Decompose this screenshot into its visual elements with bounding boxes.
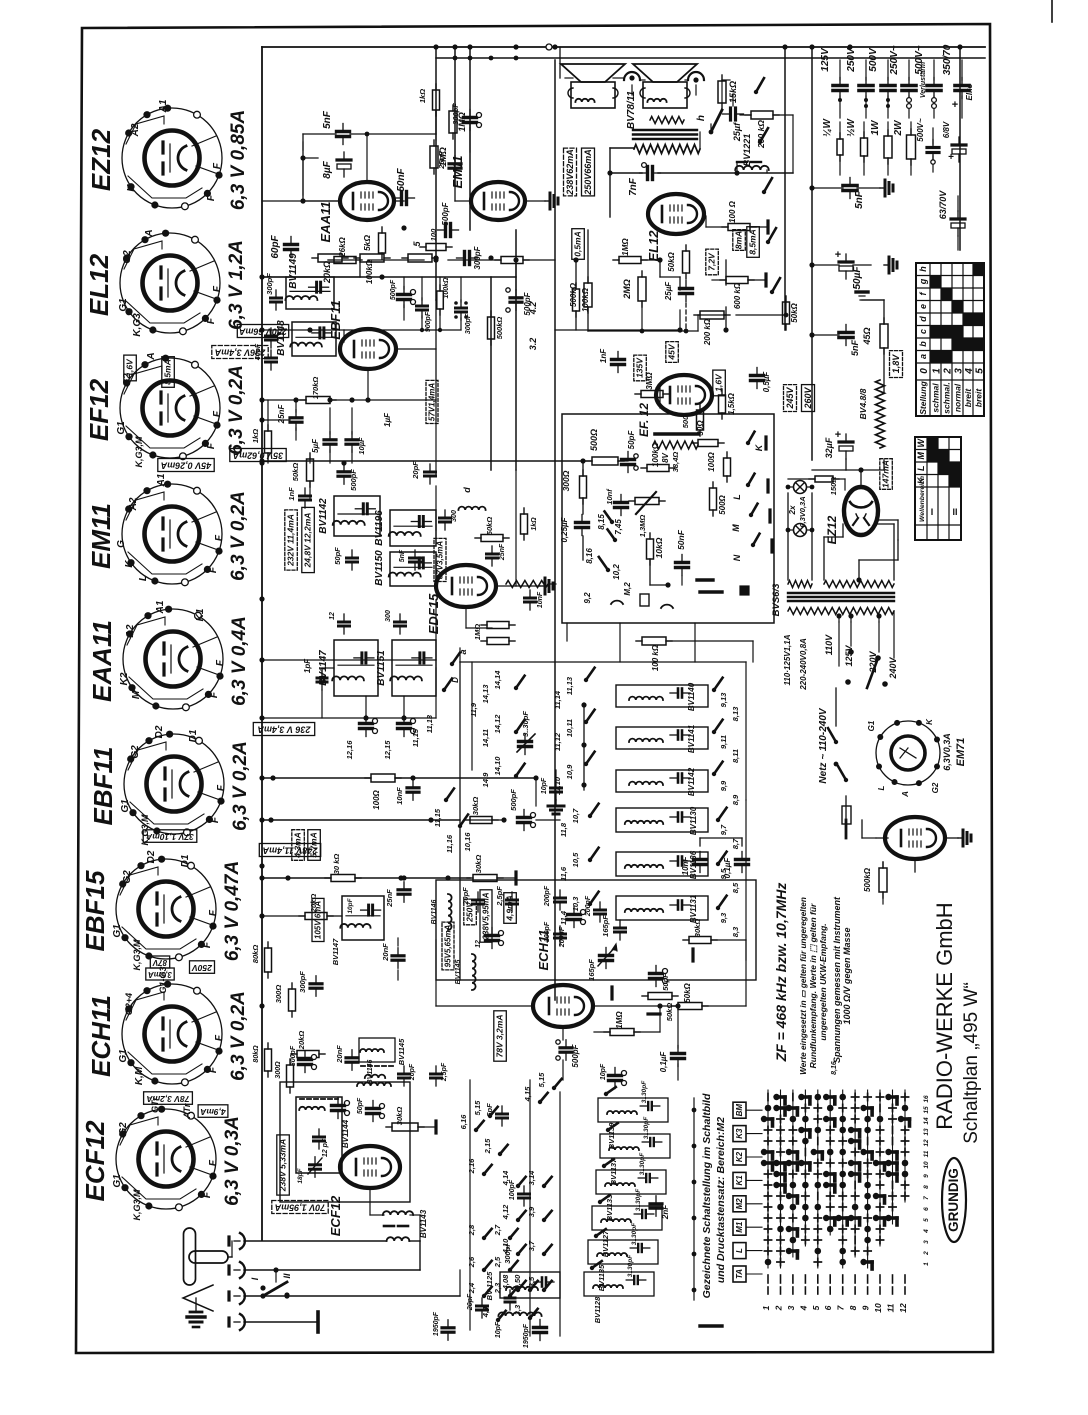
svg-text:L: L <box>735 1248 744 1253</box>
svg-text:EDF15: EDF15 <box>426 593 441 634</box>
svg-text:Spannungen gemessen mit Instru: Spannungen gemessen mit Instrument <box>832 896 842 1063</box>
FM IF filter BV1130 <box>616 808 708 832</box>
svg-text:147mA: 147mA <box>881 460 891 488</box>
svg-text:245V: 245V <box>785 386 795 409</box>
capacitor 2,5pF osc <box>431 1073 442 1076</box>
tube EM71 socket <box>876 721 940 785</box>
svg-text:BV78/11: BV78/11 <box>626 90 637 129</box>
svg-text:5nF: 5nF <box>850 340 860 357</box>
wire if lower <box>262 717 436 719</box>
svg-text:50pF: 50pF <box>357 1097 364 1114</box>
svg-text:10: 10 <box>873 1303 883 1313</box>
switch K <box>746 441 750 445</box>
trimmer 18pF osc <box>310 1163 321 1166</box>
label box 1,8V <box>890 351 903 378</box>
svg-text:1,8V: 1,8V <box>891 354 901 374</box>
node top bus junctions 2 <box>513 44 518 49</box>
svg-text:g: g <box>918 278 928 285</box>
svg-text:12,16: 12,16 <box>345 740 354 760</box>
svg-text:BV1135: BV1135 <box>597 1264 606 1291</box>
button label BM <box>733 1102 746 1118</box>
wire vertical bus x470 <box>469 47 471 230</box>
svg-text:100Ω: 100Ω <box>372 789 381 809</box>
svg-text:500kΩ: 500kΩ <box>495 317 504 340</box>
button label M1 <box>733 1219 746 1235</box>
resistor 30kΩ ech <box>689 937 711 944</box>
svg-text:BVS6/3: BVS6/3 <box>771 583 782 616</box>
svg-text:10kΩ: 10kΩ <box>654 537 664 558</box>
FM IF filter BV1136 <box>616 852 708 876</box>
svg-text:EBF15: EBF15 <box>80 870 110 951</box>
svg-text:A: A <box>144 229 155 237</box>
svg-text:8,16: 8,16 <box>831 1061 838 1075</box>
coil BV1143 <box>383 1211 413 1215</box>
svg-text:G1: G1 <box>112 1174 123 1188</box>
svg-text:7,45: 7,45 <box>614 519 623 535</box>
svg-text:9,11: 9,11 <box>719 735 728 749</box>
svg-text:236 V 3,4mA: 236 V 3,4mA <box>257 725 311 735</box>
label box 78V 3,2mA ech <box>494 1011 507 1061</box>
svg-text:G1: G1 <box>118 298 129 312</box>
svg-text:M,2: M,2 <box>623 582 632 596</box>
coil block BV1125 <box>500 1272 560 1298</box>
resistor 30kΩ c <box>473 875 497 882</box>
svg-text:1,6V: 1,6V <box>125 358 135 377</box>
svg-text:h: h <box>918 266 928 272</box>
svg-text:BV1147: BV1147 <box>331 938 340 965</box>
svg-text:35V 0,62mA: 35V 0,62mA <box>233 451 284 461</box>
svg-text:RADIO-WERKE GmbH: RADIO-WERKE GmbH <box>932 902 957 1129</box>
label box 45V 0,26mA <box>158 459 214 472</box>
svg-text:4,12: 4,12 <box>501 1204 510 1220</box>
tube EM71 (in circuit) <box>885 817 945 859</box>
svg-text:10,3: 10,3 <box>571 896 580 911</box>
capacitor 50nF <box>400 192 403 205</box>
svg-text:4,14: 4,14 <box>501 1170 510 1186</box>
svg-text:11,8: 11,8 <box>559 822 568 837</box>
trimmer 165pF ech <box>600 954 613 957</box>
legend resistor ¼W <box>837 139 843 155</box>
svg-text:8mA: 8mA <box>734 231 744 249</box>
svg-text:25nF: 25nF <box>385 889 394 908</box>
resistor 50kΩ af <box>783 302 790 324</box>
capacitor 5pF bank <box>497 1113 508 1116</box>
svg-text:1pF: 1pF <box>303 658 312 673</box>
svg-text:300Ω: 300Ω <box>274 985 283 1004</box>
box osc section <box>280 1082 410 1202</box>
svg-text:6,3 V 0,2A: 6,3 V 0,2A <box>228 491 249 581</box>
ground tone <box>697 578 713 581</box>
label box 236V 3,4mA <box>212 346 268 359</box>
svg-text:8,5: 8,5 <box>731 882 740 893</box>
svg-text:D: D <box>451 677 460 683</box>
svg-text:57V1,4mA: 57V1,4mA <box>428 383 437 421</box>
label box 95V 5,65mA <box>442 922 454 970</box>
svg-text:3: 3 <box>923 1240 930 1244</box>
svg-text:3..30pF: 3..30pF <box>641 1080 648 1103</box>
svg-text:4,9mA: 4,9mA <box>200 1107 227 1117</box>
wire tone box verticals <box>566 623 568 641</box>
wire vertical bus x491 <box>490 277 492 470</box>
resistor 5kΩ <box>379 233 386 253</box>
switch a/D <box>450 662 454 666</box>
resistor 50kΩ ech <box>678 1003 702 1010</box>
svg-text:11,12: 11,12 <box>553 732 562 751</box>
wire horizontal bus y277 <box>262 276 516 278</box>
svg-text:30Ω: 30Ω <box>696 420 705 436</box>
resistor 10kΩ <box>647 539 654 559</box>
svg-text:10pF: 10pF <box>495 1321 502 1338</box>
svg-text:ECH11: ECH11 <box>536 930 551 971</box>
capacitor 20pF fm <box>473 899 484 902</box>
svg-text:30 kΩ: 30 kΩ <box>332 854 341 875</box>
GRUNDIG logo <box>942 1158 966 1242</box>
capacitor 5nF e <box>410 557 421 560</box>
svg-text:BV1128: BV1128 <box>593 1296 602 1323</box>
svg-text:ZF = 468 kHz bzw. 10,7MHz: ZF = 468 kHz bzw. 10,7MHz <box>773 883 789 1063</box>
svg-text:BV1150: BV1150 <box>374 550 385 586</box>
svg-text:II: II <box>282 1273 292 1279</box>
transformer BV78/11 secondary zigzag <box>650 117 684 124</box>
svg-text:6,3 V 0,2A: 6,3 V 0,2A <box>230 741 251 831</box>
svg-text:10,5: 10,5 <box>571 852 580 867</box>
resistor 100 kΩ b <box>426 244 446 251</box>
tube EBF11 (in circuit) <box>340 329 396 369</box>
resistor 300Ω tone <box>580 476 587 498</box>
wire out-trafo <box>610 147 634 149</box>
wire top bus <box>262 46 985 48</box>
capacitor 10nf tone <box>615 501 628 504</box>
coil block BV1135 <box>588 1240 658 1264</box>
resistor 50kΩ d <box>481 535 503 542</box>
label box 1,6V <box>124 355 137 381</box>
wire det cluster <box>403 277 405 289</box>
svg-text:5,15: 5,15 <box>537 1072 546 1087</box>
svg-text:BV1149: BV1149 <box>288 253 299 289</box>
resistor 1kΩ top <box>433 90 440 110</box>
label box 250V 66mA <box>582 148 595 196</box>
node top bus junctions <box>433 44 438 49</box>
wire mid h1 <box>262 276 286 278</box>
svg-text:8,16: 8,16 <box>585 548 594 564</box>
switches abc EF12 <box>754 90 758 94</box>
svg-text:87V: 87V <box>152 958 167 967</box>
svg-text:11,6: 11,6 <box>559 866 568 881</box>
table Stellung (bandwidth settings) <box>916 263 984 416</box>
wire osc <box>369 1188 371 1215</box>
svg-text:300pF: 300pF <box>473 245 482 269</box>
svg-text:20pF: 20pF <box>411 461 420 480</box>
capacitor 10pF bank <box>505 1297 515 1300</box>
trimmer 50pF <box>622 458 635 461</box>
svg-text:BV1139: BV1139 <box>607 1122 616 1149</box>
svg-text:6,3 V 0,2A: 6,3 V 0,2A <box>226 365 247 455</box>
label box 147mA <box>880 459 893 490</box>
svg-text:EAA11: EAA11 <box>87 620 117 702</box>
resistor 1,5kΩ <box>719 395 726 413</box>
svg-text:ECH11: ECH11 <box>86 995 116 1077</box>
svg-text:ungeregelten UKW-Empfang.: ungeregelten UKW-Empfang. <box>818 923 828 1040</box>
coil block BV1128 <box>584 1272 654 1296</box>
svg-text:11: 11 <box>886 1303 896 1312</box>
wire right rail x812 <box>811 47 813 460</box>
svg-text:BM: BM <box>735 1104 744 1117</box>
svg-text:6/8V: 6/8V <box>942 121 951 138</box>
resistor 3MΩ <box>641 391 663 398</box>
capacitor 300pF w <box>310 982 322 985</box>
wire fm vertical x584 <box>583 703 585 790</box>
svg-text:14,9: 14,9 <box>481 772 490 787</box>
elko 50µF <box>839 260 853 263</box>
tube EBF15 (socket diagram) <box>116 859 216 959</box>
svg-text:2,6: 2,6 <box>467 1256 476 1268</box>
switch col fm4 <box>716 818 720 822</box>
trimmer 3..30pF fm <box>519 740 532 743</box>
ground fm <box>555 800 557 806</box>
svg-text:und Drucktastensatz: Bereich: und Drucktastensatz: Bereich:M2 <box>715 1117 727 1283</box>
svg-text:110·125V1,1A: 110·125V1,1A <box>783 634 792 685</box>
wire ebf11 down <box>367 370 369 400</box>
svg-text:8,5mA: 8,5mA <box>748 229 758 255</box>
svg-text:Wellenbereich: Wellenbereich <box>919 476 926 522</box>
svg-text:45V 0,26mA: 45V 0,26mA <box>161 461 213 471</box>
dashed box 57V 1,4mA <box>426 380 438 423</box>
svg-text:25µF: 25µF <box>664 281 673 302</box>
svg-text:9: 9 <box>861 1305 871 1310</box>
svg-text:a: a <box>918 354 928 359</box>
svg-text:135V: 135V <box>635 357 645 378</box>
legend resistor ½W <box>861 138 868 156</box>
svg-text:EBF11: EBF11 <box>88 747 118 826</box>
svg-text:5: 5 <box>975 368 986 374</box>
svg-text:L: L <box>138 575 149 581</box>
svg-text:F: F <box>210 816 221 823</box>
svg-text:350/70: 350/70 <box>942 44 953 75</box>
svg-text:3,3: 3,3 <box>513 1304 522 1315</box>
wire avc area <box>262 915 304 917</box>
svg-text:2,7: 2,7 <box>493 1224 502 1236</box>
resistor 100Ω b <box>724 458 731 476</box>
svg-text:100 kΩ: 100 kΩ <box>651 644 660 671</box>
antenna symbol (dipole T) <box>184 1228 196 1285</box>
capacitor 500pF <box>444 224 447 237</box>
resistor 80kΩ osc <box>265 1049 272 1071</box>
wire antenna row1b <box>409 1240 420 1242</box>
resistor 50kΩ ech2 <box>648 993 672 1000</box>
capacitor 20pF bank <box>477 1305 488 1308</box>
capacitor 500pF ech <box>560 1046 572 1049</box>
label box 0,5mA <box>572 229 585 260</box>
svg-text:37V 1,10mA: 37V 1,10mA <box>146 832 194 842</box>
svg-text:50kΩ: 50kΩ <box>667 251 676 271</box>
svg-text:8V: 8V <box>661 452 670 462</box>
svg-text:1nF: 1nF <box>287 487 296 501</box>
svg-text:4: 4 <box>923 1229 930 1234</box>
resistor 15kΩ <box>718 81 726 103</box>
svg-text:8,9: 8,9 <box>731 794 740 805</box>
resistor 200kΩ af <box>700 311 724 319</box>
label box 1,6V EF12 <box>713 370 726 396</box>
svg-text:238V 5,33mA: 238V 5,33mA <box>278 1139 288 1192</box>
capacitor 7nF <box>646 167 649 180</box>
svg-text:100kΩ: 100kΩ <box>581 287 590 312</box>
capacitor 5nF (EAA11) <box>337 130 350 133</box>
label box 250V (ECH11) <box>190 961 215 974</box>
capacitor 2nF bank <box>650 1202 662 1205</box>
IF block BV1147b <box>342 896 384 940</box>
svg-text:11,13: 11,13 <box>425 714 434 733</box>
svg-text:¼W: ¼W <box>822 118 833 137</box>
resistor 100kΩ h <box>647 465 669 472</box>
wire vertical bus x555 (HT rail) <box>554 60 556 1000</box>
pot track bar <box>655 432 698 436</box>
svg-text:1000 Ω/V gegen Masse: 1000 Ω/V gegen Masse <box>842 927 852 1024</box>
capacitor 0,5µF <box>751 374 764 377</box>
svg-text:32µF: 32µF <box>824 437 834 458</box>
label box 105V 6mA <box>312 898 324 941</box>
svg-text:6,3 V 0,47A: 6,3 V 0,47A <box>222 861 243 961</box>
coil BV1146 <box>448 894 452 930</box>
capacitor 100pF bank <box>519 1193 530 1196</box>
svg-text:0: 0 <box>919 368 930 374</box>
capacitor 300pF ifs <box>440 517 451 520</box>
svg-text:15: 15 <box>923 1106 930 1114</box>
fuse mains <box>842 806 851 824</box>
wire speaker bus <box>559 47 561 78</box>
svg-text:BV1145: BV1145 <box>397 1038 406 1065</box>
capacitor 10pF fm <box>551 787 562 790</box>
svg-text:50kΩ: 50kΩ <box>291 463 300 482</box>
svg-text:50kΩ: 50kΩ <box>790 302 799 322</box>
switch 10,16 <box>458 824 462 828</box>
svg-text:5kΩ: 5kΩ <box>362 235 372 251</box>
capacitor 200pF ech2 <box>595 909 606 912</box>
svg-text:G: G <box>116 540 127 548</box>
svg-text:30kΩ: 30kΩ <box>693 919 702 938</box>
svg-text:3,7: 3,7 <box>527 1240 536 1251</box>
svg-text:7: 7 <box>923 1196 930 1200</box>
coil small d <box>458 507 485 510</box>
resistor 500kΩ EM71 <box>879 868 887 892</box>
trimmer 500pF det <box>398 293 411 296</box>
resistor 5kΩ b <box>408 254 432 262</box>
svg-text:BV1141: BV1141 <box>687 724 696 753</box>
IF block BV1151 <box>392 640 436 696</box>
wire avc y878 <box>262 877 330 879</box>
ground antenna <box>190 1311 202 1314</box>
svg-text:12: 12 <box>329 612 336 620</box>
wire avc y778 <box>262 777 370 779</box>
svg-text:1,3MΩ: 1,3MΩ <box>638 515 647 538</box>
capacitor 300pF <box>463 252 466 265</box>
button label K1 <box>733 1172 746 1188</box>
svg-text:238V5,95mA: 238V5,95mA <box>482 892 491 940</box>
IF block BV1147 <box>334 640 378 696</box>
svg-text:BV1142: BV1142 <box>687 767 696 796</box>
tube ECF12 (in circuit) <box>340 1146 400 1188</box>
resistor 20kΩ <box>318 254 342 262</box>
svg-text:50kΩ: 50kΩ <box>485 517 494 536</box>
svg-text:5nF: 5nF <box>854 190 865 209</box>
svg-text:D2: D2 <box>146 850 157 863</box>
svg-text:300pF: 300pF <box>265 273 274 295</box>
wire vertical bus x516 <box>515 230 517 470</box>
button label L <box>733 1243 746 1259</box>
svg-text:F: F <box>214 1034 225 1041</box>
heater winding small <box>506 581 548 588</box>
svg-text:63/70V: 63/70V <box>938 190 948 220</box>
capacitor 25nF left <box>290 416 302 419</box>
svg-text:600 kΩ: 600 kΩ <box>733 282 742 309</box>
svg-text:14,13: 14,13 <box>481 684 490 704</box>
wire fm2 <box>745 800 747 960</box>
svg-text:2MΩ: 2MΩ <box>622 279 632 300</box>
svg-text:45Ω: 45Ω <box>862 327 872 345</box>
svg-text:500: 500 <box>681 415 690 428</box>
svg-text:1: 1 <box>761 1305 771 1310</box>
svg-text:500kΩ: 500kΩ <box>863 867 872 892</box>
capacitor 2,5pF <box>507 899 518 902</box>
label box 70V 1,95mA <box>272 1201 328 1214</box>
capacitor 1pF <box>317 677 327 680</box>
svg-text:1µF: 1µF <box>383 412 392 427</box>
svg-text:BV1151: BV1151 <box>376 650 387 686</box>
svg-text:BV1148: BV1148 <box>276 320 287 356</box>
svg-text:BV1142: BV1142 <box>318 498 329 534</box>
svg-text:breit: breit <box>963 388 973 408</box>
resistor 1MΩ f <box>487 638 509 645</box>
svg-text:EM11: EM11 <box>86 503 116 569</box>
svg-text:K1: K1 <box>735 1175 744 1186</box>
label box 238V 5,95mA <box>480 890 492 942</box>
svg-text:1: 1 <box>932 368 943 374</box>
svg-text:K1: K1 <box>195 608 206 621</box>
svg-text:3..30pF: 3..30pF <box>635 1188 642 1211</box>
resistor 1kΩ d <box>521 514 528 534</box>
wire ebf11 plate <box>396 348 436 350</box>
switch h <box>709 130 714 135</box>
capacitor 5nF (rail) <box>843 184 857 188</box>
svg-text:900pF: 900pF <box>425 311 432 332</box>
svg-text:d: d <box>918 316 928 322</box>
svg-text:2nF: 2nF <box>661 1204 670 1220</box>
IF block BV1148 <box>292 322 336 356</box>
legend capacitor 250V <box>859 84 873 88</box>
resistor 1MΩ ech <box>610 1029 634 1036</box>
svg-text:3MΩ: 3MΩ <box>645 372 654 390</box>
capacitor 20pF <box>425 471 436 474</box>
svg-text:300pF: 300pF <box>298 971 307 993</box>
svg-text:20nF: 20nF <box>381 943 390 962</box>
zigzag tone control <box>653 441 698 449</box>
svg-text:4,3mA: 4,3mA <box>293 832 303 859</box>
switch L <box>746 483 750 487</box>
speaker jack 2 <box>688 72 704 80</box>
svg-text:25nF: 25nF <box>437 151 446 170</box>
box tone control section <box>562 414 774 623</box>
svg-text:300: 300 <box>451 510 458 522</box>
svg-text:11,13: 11,13 <box>565 676 574 695</box>
capacitor 300pF ifa <box>271 297 282 300</box>
capacitor 500pF mid <box>510 296 522 299</box>
svg-text:125V: 125V <box>844 644 854 666</box>
resistor 500Ω pot <box>592 457 618 465</box>
svg-text:BV1146: BV1146 <box>367 1060 374 1085</box>
svg-text:9: 9 <box>923 1174 930 1178</box>
tube EF12 (socket diagram) <box>120 358 220 458</box>
svg-text:2: 2 <box>943 368 954 375</box>
wire EM71 <box>861 820 863 838</box>
